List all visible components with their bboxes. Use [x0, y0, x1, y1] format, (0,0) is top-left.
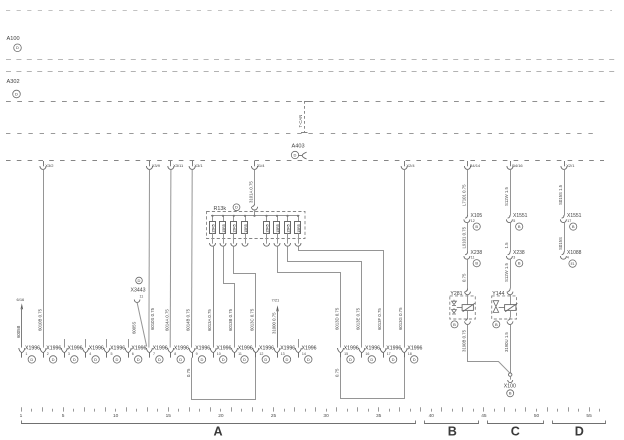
svg-text:6013A 0.75: 6013A 0.75 — [207, 309, 212, 331]
svg-text:X3/11: X3/11 — [173, 163, 184, 168]
svg-text:1.5: 1.5 — [504, 242, 509, 249]
pin X2/4 of A403 — [404, 161, 406, 166]
wire arrow to X1996 pin1 — [21, 308, 23, 348]
resistor R13k element 8 — [298, 216, 300, 222]
svg-text:D: D — [286, 357, 289, 362]
bus line A302 bottom — [6, 101, 606, 103]
junction dot feed — [253, 215, 255, 217]
svg-text:X2/1: X2/1 — [566, 163, 575, 168]
svg-text:7/21: 7/21 — [272, 298, 281, 303]
ruler ticks — [22, 407, 600, 411]
svg-text:D: D — [94, 357, 97, 362]
resistor R13k element 5 — [266, 216, 268, 222]
svg-text:7: 7 — [153, 352, 155, 356]
node T-CAN tick bottom — [301, 132, 308, 134]
internal bus of R13k — [211, 215, 300, 217]
svg-text:R13k: R13k — [214, 206, 227, 212]
connector X238 pin 3 — [508, 252, 510, 255]
solenoid valve Y281 — [450, 296, 476, 319]
node X100 — [509, 373, 512, 376]
connector X1996 pin 5 — [106, 339, 108, 348]
svg-text:X3/1: X3/1 — [194, 163, 203, 168]
wire R13k.2 to X1996 pin11 (6013B) — [224, 246, 235, 347]
connector circle A302 — [13, 90, 21, 98]
pin X2/1 of A403 — [564, 161, 566, 166]
pin X3/2 of A403 — [43, 161, 45, 166]
svg-text:X1996: X1996 — [131, 346, 146, 352]
svg-text:6010B 0.75: 6010B 0.75 — [38, 308, 43, 331]
wire node to X100 — [510, 376, 512, 379]
svg-text:L7101 0.75: L7101 0.75 — [461, 184, 466, 206]
svg-text:D: D — [294, 152, 297, 157]
svg-text:X1996: X1996 — [68, 346, 83, 352]
svg-text:6013F 0.75: 6013F 0.75 — [377, 308, 382, 330]
svg-text:3: 3 — [513, 255, 515, 259]
svg-text:S12W 1.5: S12W 1.5 — [504, 187, 509, 206]
svg-text:3190U 1.5: 3190U 1.5 — [504, 332, 509, 352]
svg-text:31/4: 31/4 — [257, 163, 266, 168]
svg-text:3: 3 — [68, 352, 70, 356]
svg-text:0.75: 0.75 — [461, 273, 466, 282]
svg-text:B: B — [475, 261, 478, 266]
svg-text:B4/16: B4/16 — [512, 163, 523, 168]
svg-text:B: B — [518, 261, 521, 266]
wire X1551 column upper — [510, 170, 512, 215]
svg-text:D: D — [349, 357, 352, 362]
svg-text:12: 12 — [259, 352, 263, 356]
group bracket A — [22, 421, 416, 424]
svg-text:0.75: 0.75 — [335, 368, 340, 377]
svg-text:6: 6 — [132, 352, 134, 356]
svg-text:X100: X100 — [504, 384, 516, 390]
svg-text:L9101 0.75: L9101 0.75 — [461, 226, 466, 248]
svg-text:6013D 0.75: 6013D 0.75 — [334, 307, 339, 330]
svg-text:0.75: 0.75 — [186, 368, 191, 377]
svg-text:D: D — [138, 278, 141, 283]
svg-text:B: B — [518, 224, 521, 229]
svg-text:D: D — [392, 357, 395, 362]
resistor R13k element 3 — [233, 216, 235, 222]
svg-text:45: 45 — [481, 413, 487, 419]
resistor R13k element 7 — [287, 216, 289, 222]
svg-text:B: B — [572, 224, 575, 229]
svg-text:D: D — [158, 357, 161, 362]
svg-text:6010S 0.75: 6010S 0.75 — [150, 307, 155, 330]
svg-text:B: B — [475, 224, 478, 229]
svg-text:E1: E1 — [571, 262, 575, 266]
svg-text:T-CAN: T-CAN — [298, 115, 303, 128]
pin X3/1 of A403 — [192, 161, 194, 166]
svg-text:15R5: 15R5 — [244, 224, 248, 233]
wire bridge X1996 pin9 to pin12 — [192, 358, 256, 400]
svg-text:35: 35 — [376, 413, 382, 419]
resistor pack R13k dashed box — [207, 212, 306, 239]
svg-text:6005S: 6005S — [131, 321, 136, 334]
wire X3/1 to X1996 pin9 — [191, 170, 194, 348]
svg-text:11: 11 — [471, 255, 475, 259]
wire arrow 7/21 to X1996 pin13 (31000) — [277, 310, 279, 348]
svg-text:A100: A100 — [7, 36, 20, 42]
wire X3/9 to X1996 pin7 — [148, 170, 151, 348]
wire Y281 to X100 (3190B) — [468, 325, 511, 374]
svg-text:15: 15 — [166, 413, 172, 419]
svg-text:X1996: X1996 — [46, 346, 61, 352]
group bracket D — [553, 421, 606, 424]
svg-text:30: 30 — [323, 413, 329, 419]
svg-text:X1996: X1996 — [238, 346, 253, 352]
connector X1996 pin 4 — [85, 339, 87, 348]
svg-text:C: C — [511, 425, 520, 439]
svg-text:D: D — [575, 425, 584, 439]
svg-text:8: 8 — [174, 352, 176, 356]
svg-text:15R5: 15R5 — [265, 224, 269, 233]
svg-text:X1996: X1996 — [386, 346, 401, 352]
svg-text:15: 15 — [344, 352, 348, 356]
connector circle X3443 — [136, 277, 143, 284]
svg-text:15R5: 15R5 — [222, 224, 226, 233]
resistor R13k element 6 — [277, 216, 279, 222]
svg-text:6/16: 6/16 — [17, 297, 26, 302]
svg-text:X1996: X1996 — [344, 346, 359, 352]
svg-text:D: D — [201, 357, 204, 362]
svg-text:X1996: X1996 — [216, 346, 231, 352]
wire X3/2 to X1996 pin2 — [43, 170, 45, 348]
connector X105 pin 12 — [465, 215, 467, 218]
svg-text:15R5: 15R5 — [211, 224, 215, 233]
connector X1996 pin 6 — [128, 339, 130, 348]
svg-text:X1996: X1996 — [195, 346, 210, 352]
svg-text:Y144: Y144 — [492, 291, 504, 297]
wire R13k.6 to X1996 pin15 (6013D) — [278, 246, 341, 347]
pin X3/9 of A403 — [149, 161, 151, 166]
svg-text:B: B — [453, 322, 456, 327]
pin 31/4 of A403 — [254, 161, 256, 166]
wire R13k.3 to X1996 pin12 (6013C) — [234, 246, 256, 347]
svg-text:D: D — [52, 357, 55, 362]
svg-text:18: 18 — [408, 352, 412, 356]
connector X238 pin 11 — [465, 252, 467, 255]
bus line A100 bottom — [6, 59, 616, 61]
wire to X238 — [510, 223, 512, 252]
svg-text:X1996: X1996 — [259, 346, 274, 352]
connector circle A100 — [14, 44, 22, 52]
svg-text:A: A — [213, 425, 222, 439]
svg-text:X3443: X3443 — [131, 288, 146, 294]
group bracket B — [425, 421, 479, 424]
svg-text:1: 1 — [20, 413, 23, 419]
svg-text:D: D — [370, 357, 373, 362]
connector circle A403 — [291, 151, 298, 158]
wire Y144 to X100 (3190U) — [510, 325, 512, 374]
wire X2/1 column upper — [564, 170, 566, 215]
pin X3/11 of A403 — [170, 161, 172, 166]
connector X1996 pin 14 — [298, 339, 300, 348]
svg-text:6014A 0.75: 6014A 0.75 — [164, 309, 169, 331]
svg-text:6013C 0.75: 6013C 0.75 — [249, 308, 254, 331]
svg-text:D: D — [73, 357, 76, 362]
svg-text:15R5: 15R5 — [276, 224, 280, 233]
connector circle Y144 — [493, 321, 500, 328]
node T-CAN corner tick top — [304, 101, 311, 103]
svg-text:X3/9: X3/9 — [152, 163, 161, 168]
svg-text:40: 40 — [429, 413, 435, 419]
resistor R13k element 1 — [212, 216, 214, 222]
svg-text:X1996: X1996 — [280, 346, 295, 352]
connector circle R13k — [233, 204, 240, 211]
svg-text:X1996: X1996 — [89, 346, 104, 352]
svg-text:10: 10 — [113, 413, 119, 419]
svg-text:25: 25 — [271, 413, 277, 419]
svg-text:B: B — [495, 322, 498, 327]
connector plug at R13k feed — [252, 203, 254, 206]
svg-text:5: 5 — [513, 219, 515, 223]
svg-text:X1996: X1996 — [407, 346, 422, 352]
pin B4/14 of A403 — [467, 161, 469, 166]
svg-text:D: D — [15, 91, 18, 96]
svg-text:B: B — [448, 425, 457, 439]
bus dashed line mid — [6, 133, 595, 135]
bus line top — [6, 10, 612, 12]
svg-text:5: 5 — [62, 413, 65, 419]
svg-text:6014B 0.75: 6014B 0.75 — [186, 308, 191, 331]
svg-text:17: 17 — [567, 219, 571, 223]
wire to X238 — [467, 223, 469, 252]
wire R13k.1 to X1996 pin10 (6013A) — [213, 246, 215, 347]
svg-text:D: D — [30, 357, 33, 362]
svg-text:5: 5 — [111, 352, 113, 356]
svg-text:D: D — [137, 357, 140, 362]
svg-text:X1996: X1996 — [153, 346, 168, 352]
svg-text:D: D — [264, 357, 267, 362]
connector circle X100 — [507, 390, 514, 397]
connector hook X3443 — [134, 300, 140, 303]
svg-text:D: D — [115, 357, 118, 362]
svg-text:B4/14: B4/14 — [470, 163, 481, 168]
wire X3/11 to X1996 pin8 — [169, 170, 172, 348]
connector hook X100 — [508, 380, 513, 383]
svg-text:X3/2: X3/2 — [45, 163, 54, 168]
svg-text:2: 2 — [47, 352, 49, 356]
svg-text:S015S 1.5: S015S 1.5 — [558, 184, 563, 205]
wire to X1088 — [564, 223, 566, 252]
svg-text:15R5: 15R5 — [286, 224, 290, 233]
pin B4/16 of A403 — [510, 161, 512, 166]
svg-text:D: D — [16, 45, 19, 50]
svg-text:X1996: X1996 — [174, 346, 189, 352]
svg-text:13: 13 — [281, 352, 285, 356]
svg-text:A403: A403 — [292, 144, 305, 150]
svg-text:6005B: 6005B — [16, 325, 21, 338]
svg-text:4: 4 — [567, 255, 569, 259]
svg-text:X1996: X1996 — [365, 346, 380, 352]
svg-text:14: 14 — [302, 352, 306, 356]
svg-text:X1996: X1996 — [302, 346, 317, 352]
svg-text:6013G 0.75: 6013G 0.75 — [398, 307, 403, 330]
svg-text:S12W 1.5: S12W 1.5 — [504, 263, 509, 282]
svg-text:D: D — [235, 205, 238, 210]
wire X105 column upper — [467, 170, 469, 215]
wire X2/4 to X1996 pin18 (6013G) — [404, 170, 406, 348]
connector X1551 pin 17 — [562, 215, 564, 218]
svg-text:1: 1 — [25, 352, 27, 356]
connector X1088 pin 4 — [562, 252, 564, 255]
svg-text:9: 9 — [196, 352, 198, 356]
svg-text:D: D — [179, 357, 182, 362]
control unit A403 boundary dashed line — [6, 160, 604, 162]
svg-text:S015S: S015S — [558, 237, 563, 250]
connector circle Y281 — [451, 321, 458, 328]
svg-text:15R5: 15R5 — [297, 224, 301, 233]
resistor R13k element 2 — [223, 216, 225, 222]
wire T-CAN vertical dashed — [304, 101, 306, 133]
solenoid valve Y144 — [492, 296, 517, 319]
svg-text:20: 20 — [218, 413, 224, 419]
svg-text:15R5: 15R5 — [233, 224, 237, 233]
group bracket C — [488, 421, 544, 424]
connector X1996 pin 3 — [64, 339, 66, 348]
wire R13k.7 to X1996 pin16 (6013E) — [288, 246, 362, 347]
svg-text:10: 10 — [217, 352, 221, 356]
wire X3443 to X1996 pin7 (6005S) — [137, 303, 147, 347]
svg-text:D: D — [243, 357, 246, 362]
wire bridge X1996 pin15 to pin18 — [341, 358, 405, 399]
svg-text:X1996: X1996 — [110, 346, 125, 352]
wire R13k.8 to X1996 pin17 (6013F) — [299, 246, 384, 347]
svg-text:Y281: Y281 — [450, 291, 462, 297]
svg-text:16: 16 — [365, 352, 369, 356]
svg-text:X2/4: X2/4 — [406, 163, 415, 168]
connector X1551 pin 5 — [508, 215, 510, 218]
svg-text:17: 17 — [387, 352, 391, 356]
svg-text:3190B 0.75: 3190B 0.75 — [461, 329, 466, 352]
svg-text:D: D — [307, 357, 310, 362]
svg-text:X1088: X1088 — [567, 250, 582, 256]
svg-text:12: 12 — [471, 219, 475, 223]
svg-text:A302: A302 — [7, 79, 20, 85]
svg-text:6013B 0.75: 6013B 0.75 — [228, 308, 233, 331]
svg-text:B: B — [509, 391, 512, 396]
svg-text:11: 11 — [238, 352, 242, 356]
svg-text:55: 55 — [586, 413, 592, 419]
resistor R13k element 4 — [245, 216, 247, 222]
svg-text:D: D — [413, 357, 416, 362]
wire to valve — [467, 259, 469, 288]
svg-text:X1996: X1996 — [25, 346, 40, 352]
connector fork A403 — [298, 152, 306, 159]
svg-text:D: D — [222, 357, 225, 362]
wire to valve — [510, 259, 512, 288]
svg-text:6013E 0.75: 6013E 0.75 — [356, 307, 361, 330]
svg-text:3101A 0.75: 3101A 0.75 — [249, 181, 254, 203]
bus line A302 top — [6, 71, 616, 73]
svg-text:31000 0.75: 31000 0.75 — [271, 312, 276, 334]
svg-text:11: 11 — [140, 295, 144, 299]
svg-text:4: 4 — [89, 352, 91, 356]
wire 31/4 to R13k — [254, 170, 256, 203]
svg-text:50: 50 — [534, 413, 540, 419]
